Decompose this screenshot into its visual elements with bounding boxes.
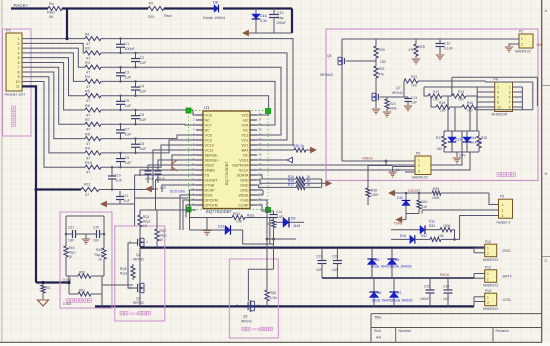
svg-text:VC7: VC7 — [205, 123, 212, 127]
svg-text:32: 32 — [259, 143, 263, 147]
svg-text:150: 150 — [380, 60, 386, 64]
svg-text:R14: R14 — [458, 90, 464, 94]
svg-text:R9: R9 — [85, 147, 90, 151]
svg-text:4: 4 — [18, 51, 20, 55]
svg-text:IRF4642: IRF4642 — [320, 73, 333, 77]
capacitor C28 1UF — [332, 249, 342, 278]
svg-text:Rsp1: Rsp1 — [143, 220, 151, 224]
transistor Q7 — [372, 86, 403, 102]
svg-text:P10: P10 — [485, 266, 491, 270]
svg-text:ZEDE: ZEDE — [239, 193, 249, 197]
resistor RQ6 1K — [120, 264, 135, 280]
svg-text:100K: 100K — [443, 224, 452, 228]
svg-text:D5: D5 — [395, 258, 399, 262]
svg-text:4: 4 — [497, 90, 499, 94]
svg-text:VRBG: VRBG — [205, 168, 216, 172]
svg-text:47k: 47k — [409, 48, 415, 52]
diode D8 1N914 — [203, 1, 225, 21]
svg-text:C11: C11 — [123, 194, 129, 198]
svg-text:CHG: CHG — [240, 198, 248, 202]
wire CHG cluster — [266, 208, 296, 241]
capacitor C1 — [116, 37, 135, 54]
wire D2 to Q5 column — [243, 230, 274, 244]
wire PACK+ rail — [11, 7, 292, 9]
resistor R14 100 — [442, 90, 477, 102]
resistor R4 47 — [85, 75, 101, 89]
svg-text:C6: C6 — [140, 113, 145, 117]
resistor RQ2 1K — [155, 210, 167, 248]
resistor R18 3.4K — [477, 131, 487, 152]
wire PACK- row — [322, 277, 474, 279]
svg-text:Diode 1N4003: Diode 1N4003 — [391, 265, 412, 269]
diode D5 1N4003 — [387, 249, 411, 278]
svg-text:1UF: 1UF — [140, 90, 148, 94]
port arrow VSS1 — [257, 157, 293, 162]
svg-text:MHDR1X2: MHDR1X2 — [483, 258, 498, 262]
svg-text:C27: C27 — [316, 255, 322, 259]
svg-text:3.4V: 3.4V — [459, 154, 466, 158]
wire Q6 gate — [352, 58, 376, 66]
capacitor C27 1UF — [316, 249, 327, 278]
diode D6 1N4003 — [369, 278, 392, 306]
resistor R7 47 — [85, 118, 101, 132]
svg-text:TS: TS — [205, 173, 210, 177]
connector P10 BATT- — [483, 266, 513, 288]
svg-text:3: 3 — [509, 90, 511, 94]
wire pin4 fanout — [22, 53, 85, 81]
wire PACK- sense feed — [36, 281, 69, 283]
svg-text:36: 36 — [259, 123, 263, 127]
resistor R1 47 — [85, 32, 101, 46]
svg-text:MHDR1X2: MHDR1X2 — [483, 307, 498, 311]
wire row10 to VC10 — [101, 145, 196, 167]
svg-text:D13: D13 — [455, 138, 461, 142]
wire Q5 gate feed — [248, 218, 273, 302]
svg-text:D11: D11 — [429, 220, 435, 224]
wire Q2 gate — [128, 243, 137, 288]
resistor RQ4 10K — [190, 212, 270, 224]
svg-text:R8: R8 — [85, 132, 90, 136]
svg-text:VC6: VC6 — [205, 113, 212, 117]
connector P1 Header 11H — [5, 29, 25, 97]
svg-text:4.7UF: 4.7UF — [156, 177, 165, 181]
wire pin7 fanout — [22, 67, 85, 124]
svg-text:P14: P14 — [485, 289, 491, 293]
svg-text:BATT-: BATT- — [503, 275, 514, 279]
resistor R42 10K — [421, 234, 456, 242]
block box switch circuit — [326, 29, 538, 181]
svg-text:DCAP: DCAP — [205, 188, 216, 192]
svg-text:51K: 51K — [422, 205, 429, 209]
wire VREG — [342, 160, 415, 162]
resistor R43 1K — [64, 234, 76, 276]
svg-text:R16: R16 — [467, 101, 473, 105]
svg-text:8: 8 — [18, 70, 20, 74]
wire P6 pin2 ground — [388, 167, 415, 178]
svg-text:2: 2 — [487, 278, 489, 282]
svg-text:1: 1 — [418, 159, 420, 163]
capacitor C20 1UF — [88, 226, 104, 243]
svg-text:CHGST: CHGST — [205, 178, 219, 182]
diode D7 1N4003 — [389, 278, 412, 306]
wire top rail y39 — [342, 38, 513, 40]
svg-text:47: 47 — [86, 156, 90, 160]
connector Pin MHDR2X5 — [492, 78, 513, 117]
svg-text:Title: Title — [374, 315, 382, 320]
wire Q7 gate to R22 — [387, 81, 404, 97]
resistor R38 100K — [366, 166, 379, 206]
svg-text:3: 3 — [502, 214, 504, 218]
net label CHGST — [408, 189, 421, 193]
svg-text:2: 2 — [18, 42, 20, 46]
svg-text:D12: D12 — [218, 225, 224, 229]
svg-text:NC: NC — [243, 128, 249, 132]
svg-text:P1: P1 — [6, 29, 11, 33]
svg-text:C14: C14 — [276, 210, 282, 214]
capacitor C6 — [131, 109, 147, 126]
svg-text:C10: C10 — [277, 11, 284, 15]
svg-text:C3: C3 — [125, 70, 130, 74]
label discharge MOS chinese — [242, 327, 272, 331]
svg-text:47: 47 — [86, 113, 90, 117]
svg-text:1UF: 1UF — [277, 215, 283, 219]
svg-text:VC9: VC9 — [205, 138, 212, 142]
svg-text:1UF: 1UF — [124, 199, 130, 203]
svg-text:11: 11 — [16, 85, 20, 89]
wire P14 feed — [474, 297, 485, 307]
svg-text:C12: C12 — [444, 42, 450, 46]
svg-text:5.1M: 5.1M — [270, 296, 277, 300]
svg-text:10: 10 — [16, 80, 20, 84]
wire SCLK long — [257, 152, 470, 170]
diode D9 — [276, 217, 304, 229]
capacitor C13 — [404, 96, 417, 111]
svg-text:VSS2: VSS2 — [205, 163, 214, 167]
diode D4 1N4003 — [367, 249, 391, 278]
svg-text:1: 1 — [487, 296, 489, 300]
wire header left stubs — [477, 87, 495, 107]
label download circuit chinese — [497, 173, 515, 177]
svg-text:10: 10 — [497, 105, 501, 109]
svg-text:R38: R38 — [371, 189, 377, 193]
svg-text:100k: 100k — [390, 107, 398, 111]
svg-text:100: 100 — [433, 98, 439, 102]
svg-text:2: 2 — [497, 85, 499, 89]
svg-text:1UF: 1UF — [68, 239, 74, 243]
resistor R11 47 — [81, 182, 99, 197]
resistor RQ1 1K — [138, 210, 157, 232]
svg-text:1UF: 1UF — [316, 268, 322, 272]
svg-text:47: 47 — [85, 193, 89, 197]
svg-text:SCLK: SCLK — [239, 168, 249, 172]
svg-text:1UF: 1UF — [160, 186, 166, 190]
wire VREG junction — [368, 160, 393, 166]
svg-text:1: 1 — [521, 37, 523, 41]
wire CCAP down — [257, 205, 274, 211]
svg-text:VC10: VC10 — [205, 143, 214, 147]
svg-text:200: 200 — [148, 15, 154, 19]
svg-text:47: 47 — [86, 99, 90, 103]
ground RG triangle — [38, 281, 51, 306]
resistor R5 47 — [85, 90, 101, 104]
wire pin9 fanout — [22, 77, 85, 153]
resistor R24 100k — [380, 97, 398, 117]
connector P2 MHDR1X2 — [513, 30, 533, 54]
svg-text:1UF: 1UF — [411, 101, 417, 105]
svg-text:4.7UF: 4.7UF — [145, 177, 154, 181]
svg-text:R20: R20 — [379, 48, 385, 52]
wire row4 to VC4 — [101, 81, 275, 125]
svg-text:R11: R11 — [84, 182, 91, 186]
svg-text:47: 47 — [86, 56, 90, 60]
block box current sense — [60, 212, 112, 308]
net label PACK+ — [14, 3, 29, 8]
resistor R25 47k — [409, 39, 425, 64]
svg-text:R30 1k: R30 1k — [293, 144, 304, 148]
svg-text:R39: R39 — [433, 187, 439, 191]
svg-text:R7: R7 — [85, 118, 90, 122]
svg-text:R24: R24 — [390, 102, 396, 106]
svg-text:1UF: 1UF — [125, 132, 133, 136]
svg-text:100: 100 — [411, 84, 417, 88]
resistor RQ5 5.1M — [265, 239, 277, 306]
block box discharge MOS — [229, 259, 278, 338]
svg-text:6: 6 — [497, 95, 499, 99]
net label DCO blue — [170, 190, 186, 194]
svg-text:9: 9 — [18, 75, 20, 79]
wire lower left vertical — [135, 198, 196, 210]
net label LED — [537, 43, 544, 47]
svg-text:47k: 47k — [379, 73, 385, 77]
resistor R44 1K — [95, 234, 107, 276]
resistor R10 47 — [85, 161, 101, 175]
svg-text:1UF: 1UF — [140, 118, 148, 122]
wire pin10 fanout — [22, 82, 85, 168]
svg-text:4.3v: 4.3v — [260, 19, 267, 23]
capacitor C11 1UF — [116, 191, 130, 204]
resistor R15b 100 — [431, 96, 450, 113]
svg-text:D7: D7 — [397, 291, 401, 295]
wire DCAP down — [190, 190, 197, 230]
svg-text:A: A — [545, 8, 548, 13]
wire row9 to VC9 — [101, 140, 196, 153]
svg-text:VC11: VC11 — [205, 148, 214, 152]
svg-text:37: 37 — [259, 118, 263, 122]
svg-text:C30: C30 — [443, 285, 449, 289]
svg-text:100uF: 100uF — [276, 21, 287, 25]
svg-text:P2: P2 — [519, 30, 523, 34]
svg-text:P12: P12 — [485, 240, 491, 244]
svg-text:7: 7 — [509, 100, 511, 104]
svg-text:Revision: Revision — [496, 329, 509, 333]
wire BAT resistor R30 — [257, 144, 311, 152]
svg-text:P6: P6 — [416, 152, 420, 156]
svg-text:MHDR1X2: MHDR1X2 — [483, 284, 498, 288]
svg-text:VC8: VC8 — [205, 133, 212, 137]
svg-text:D4: D4 — [375, 258, 379, 262]
wire CHGST row — [395, 193, 499, 205]
svg-text:R2: R2 — [85, 47, 90, 51]
wire pin3 fanout — [22, 48, 85, 67]
svg-text:33: 33 — [259, 138, 263, 142]
capacitor C5 — [116, 95, 132, 112]
svg-text:NC: NC — [243, 118, 249, 122]
svg-text:MHDR2X5: MHDR2X5 — [492, 113, 508, 117]
resistor R17b 1K row — [257, 183, 322, 190]
capacitor C10 100uF — [269, 9, 287, 34]
svg-text:P9: P9 — [500, 195, 504, 199]
diode D16 row — [391, 234, 430, 244]
resistor R16b 100 — [450, 101, 477, 113]
svg-text:R25: R25 — [419, 45, 425, 49]
svg-text:VSS1: VSS1 — [239, 158, 248, 162]
diode D10 — [397, 192, 410, 220]
svg-text:C21: C21 — [68, 226, 74, 230]
svg-text:C13: C13 — [411, 96, 417, 100]
capacitor C30 1UF — [443, 278, 453, 306]
svg-text:C28: C28 — [332, 255, 338, 259]
svg-text:Q7: Q7 — [396, 86, 401, 90]
port arrow CHGST — [389, 190, 395, 195]
transistor Q6 IRF4642 — [320, 39, 352, 77]
svg-text:35: 35 — [259, 128, 263, 132]
connector P9 Header 3 — [497, 195, 513, 225]
resistor R22 100 — [404, 75, 485, 88]
svg-text:D8: D8 — [213, 1, 218, 5]
svg-text:30: 30 — [259, 153, 263, 157]
svg-text:R43: R43 — [69, 246, 75, 250]
svg-text:1: 1 — [502, 203, 504, 207]
svg-text:C4: C4 — [140, 85, 145, 89]
op-amp U1 BQ77910DBT body — [203, 105, 250, 214]
svg-text:C9: C9 — [125, 156, 130, 160]
svg-text:Diode 1N914: Diode 1N914 — [203, 16, 225, 20]
capacitor C7 — [116, 123, 132, 140]
svg-text:R18: R18 — [481, 136, 487, 140]
wire upper thick rail — [140, 247, 485, 249]
svg-text:R5: R5 — [85, 90, 90, 94]
svg-text:Header 11H: Header 11H — [5, 93, 25, 97]
wire diode loop bottom ground — [444, 152, 479, 163]
net label VREG — [362, 157, 373, 161]
svg-text:Rsel: Rsel — [164, 14, 172, 18]
svg-text:RQ1: RQ1 — [143, 215, 150, 219]
port arrow SDATA — [322, 179, 332, 187]
svg-text:R3: R3 — [85, 61, 90, 65]
svg-text:1UF: 1UF — [332, 268, 338, 272]
connector P12 DSG- — [483, 240, 512, 262]
svg-text:R17: R17 — [436, 136, 442, 140]
svg-text:R50: R50 — [79, 271, 85, 275]
svg-text:10K: 10K — [438, 234, 445, 238]
wire shunt to rail — [67, 281, 102, 307]
svg-text:D16: D16 — [400, 234, 406, 238]
wire zener node — [249, 32, 292, 34]
wire Q6 drain down VREG — [341, 66, 343, 161]
U1 pins right — [233, 113, 263, 208]
wire top-right vertical — [291, 9, 293, 34]
diode D2 — [190, 225, 243, 235]
svg-text:Rsel: Rsel — [47, 11, 55, 15]
svg-text:C29: C29 — [424, 285, 430, 289]
svg-text:2: 2 — [487, 301, 489, 305]
svg-text:8: 8 — [497, 100, 499, 104]
svg-text:Header 3: Header 3 — [497, 221, 511, 225]
svg-text:IRFb42: IRFb42 — [241, 320, 252, 324]
capacitor C12 0.1UF — [436, 39, 454, 60]
wire D10 R40 bottom — [406, 213, 419, 215]
svg-text:EEPROM: EEPROM — [233, 163, 249, 167]
resistor R13 100 — [424, 87, 477, 102]
svg-text:5: 5 — [509, 95, 511, 99]
svg-text:GND: GND — [240, 188, 249, 192]
connector P6 MHDR1X3 — [412, 152, 431, 180]
svg-text:BQ77910DBT: BQ77910DBT — [206, 209, 233, 214]
svg-text:GND: GND — [240, 183, 249, 187]
svg-text:34: 34 — [259, 133, 263, 137]
wire pin6 fanout — [22, 62, 85, 110]
transistor Q3 IRFb42 — [129, 248, 144, 307]
wire EEPROM long — [257, 131, 462, 165]
svg-text:VREG: VREG — [362, 157, 373, 161]
wire shunt to Q3 — [102, 284, 133, 286]
svg-text:Rsp1: Rsp1 — [95, 253, 103, 257]
svg-text:Pin: Pin — [494, 78, 499, 82]
svg-text:MHDR1X2: MHDR1X2 — [515, 50, 531, 54]
wire diode loop top — [444, 130, 479, 132]
svg-text:VC2: VC2 — [241, 138, 248, 142]
resistor R40 51K — [417, 192, 428, 214]
svg-text:GND: GND — [240, 178, 249, 182]
resistor R51 0.002 shunt — [63, 276, 102, 306]
resistor R17 150 — [436, 131, 446, 152]
wire row2 to VC2 — [101, 53, 287, 140]
svg-text:47: 47 — [267, 222, 271, 226]
svg-text:1UF: 1UF — [125, 75, 133, 79]
svg-text:Diode 1N4003: Diode 1N4003 — [392, 299, 413, 303]
wire row8 to VC8 — [101, 135, 196, 139]
svg-text:Diode 1N4003: Diode 1N4003 — [371, 265, 392, 269]
resistor R39 100K — [432, 187, 441, 200]
wire row1 to VC1 — [101, 39, 293, 145]
wire pin11 thick PACK- drop — [22, 86, 36, 282]
svg-text:R22: R22 — [411, 75, 417, 79]
svg-text:3: 3 — [418, 170, 420, 174]
svg-text:1UF: 1UF — [443, 297, 449, 301]
capacitor sense filter 1 — [155, 171, 167, 190]
transistor Q5 IRFb42 — [236, 301, 260, 324]
ground P2 — [505, 44, 513, 52]
svg-text:2: 2 — [521, 43, 523, 47]
svg-text:R40: R40 — [422, 200, 428, 204]
svg-text:1UF: 1UF — [140, 61, 148, 65]
svg-text:RG: RG — [46, 286, 51, 290]
svg-text:Diode 1N4003: Diode 1N4003 — [372, 299, 393, 303]
ground below IC — [203, 218, 211, 236]
svg-text:PACK-: PACK- — [440, 273, 452, 277]
resistor R34 100K — [440, 216, 499, 240]
svg-text:47: 47 — [86, 171, 90, 175]
svg-text:Number: Number — [399, 329, 412, 333]
diode D13 — [448, 131, 461, 152]
resistor R3 47 — [85, 61, 101, 75]
resistor R9 47 — [85, 147, 101, 161]
capacitor C8 — [131, 137, 147, 154]
title block — [371, 314, 542, 343]
resistor R20 150 — [374, 39, 386, 64]
svg-text:D6: D6 — [377, 291, 381, 295]
svg-text:C5: C5 — [125, 99, 130, 103]
